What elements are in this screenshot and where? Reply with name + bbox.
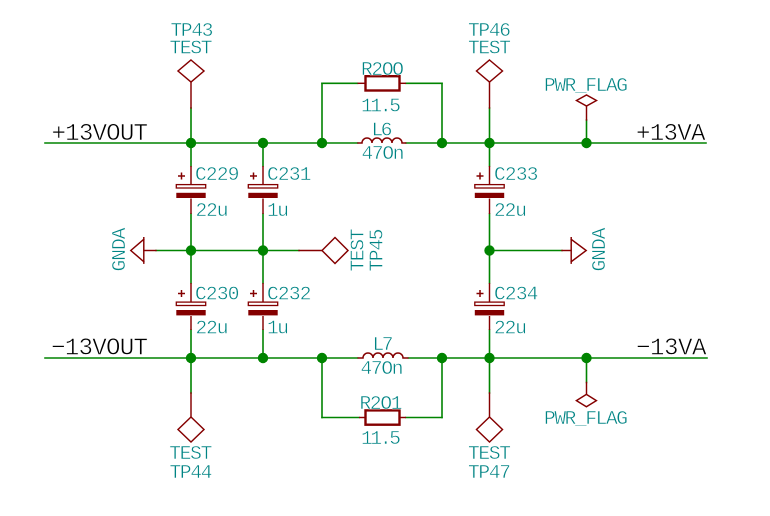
svg-text:C232: C232 [267, 283, 312, 305]
svg-text:R2O1: R2O1 [360, 393, 403, 415]
svg-text:22u: 22u [196, 200, 229, 222]
svg-text:TP45: TP45 [367, 229, 389, 272]
svg-text:PWR_FLAG: PWR_FLAG [544, 75, 628, 97]
svg-text:1u: 1u [267, 317, 289, 339]
svg-text:GNDA: GNDA [109, 227, 131, 271]
svg-text:GNDA: GNDA [589, 227, 611, 271]
svg-text:−13VA: −13VA [636, 336, 707, 363]
svg-text:C229: C229 [195, 164, 240, 186]
svg-text:22u: 22u [196, 317, 229, 339]
svg-text:L7: L7 [373, 334, 394, 356]
svg-text:C234: C234 [494, 283, 539, 305]
svg-text:+13VA: +13VA [636, 121, 706, 148]
svg-text:R2OO: R2OO [361, 59, 404, 81]
svg-text:11.5: 11.5 [361, 96, 401, 118]
svg-text:−13VOUT: −13VOUT [51, 336, 148, 363]
svg-text:L6: L6 [372, 120, 393, 142]
svg-text:TP47: TP47 [468, 462, 511, 484]
svg-text:TP44: TP44 [170, 462, 213, 484]
svg-text:TEST: TEST [170, 37, 213, 59]
svg-text:11.5: 11.5 [361, 428, 401, 450]
svg-text:47On: 47On [361, 358, 404, 380]
svg-text:C231: C231 [267, 164, 312, 186]
svg-text:22u: 22u [494, 200, 527, 222]
svg-text:C230: C230 [195, 283, 240, 305]
svg-text:TEST: TEST [468, 37, 511, 59]
svg-text:+13VOUT: +13VOUT [52, 121, 149, 148]
svg-text:22u: 22u [494, 317, 527, 339]
svg-text:C233: C233 [494, 164, 539, 186]
svg-text:1u: 1u [267, 200, 289, 222]
svg-text:PWR_FLAG: PWR_FLAG [544, 408, 628, 430]
svg-text:47On: 47On [362, 143, 405, 165]
